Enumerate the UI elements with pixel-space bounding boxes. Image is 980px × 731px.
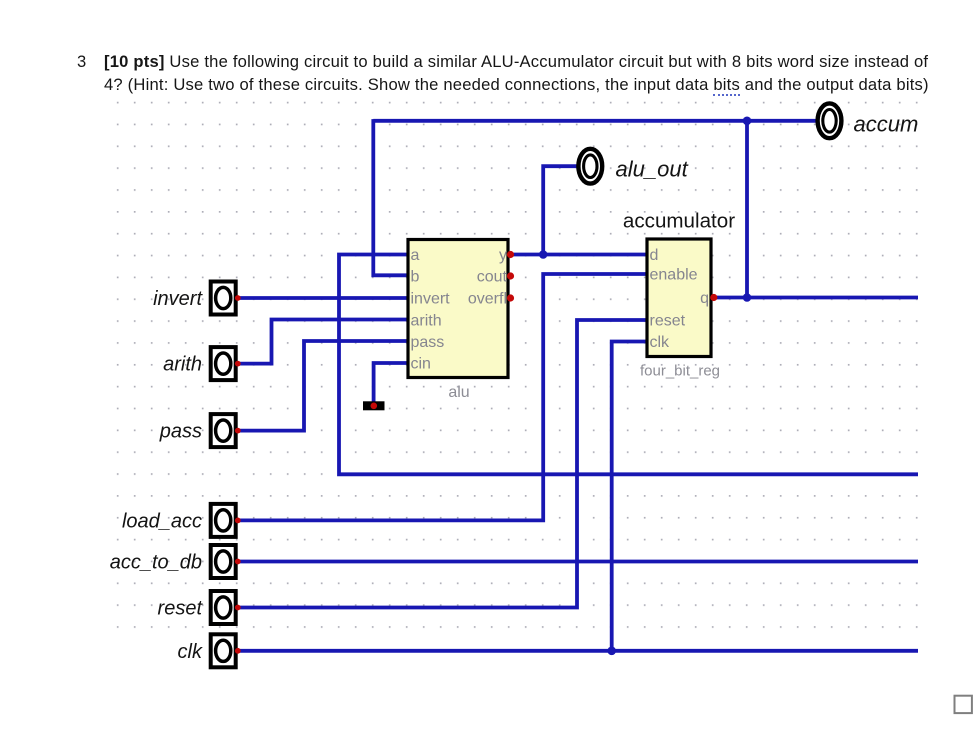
wire q output row to right edge — [712, 296, 918, 300]
red dot reset terminal — [235, 605, 241, 611]
red dot arith terminal — [235, 361, 241, 367]
wire arith net — [238, 320, 407, 364]
junction at clk branch — [607, 647, 616, 656]
svg-text:pass: pass — [159, 421, 202, 443]
red pin dot cout — [507, 272, 514, 279]
red dot invert terminal — [235, 295, 241, 301]
svg-text:clk: clk — [650, 334, 671, 351]
svg-text:alu_out: alu_out — [616, 157, 689, 182]
input terminal arith — [211, 347, 236, 380]
wire pass net — [238, 341, 407, 431]
block four_bit_reg — [647, 239, 711, 357]
red dot pass terminal — [235, 428, 241, 434]
svg-text:arith: arith — [163, 354, 202, 376]
svg-text:b: b — [411, 269, 420, 286]
svg-text:reset: reset — [158, 598, 204, 620]
svg-text:y: y — [499, 247, 507, 264]
red dot clk terminal — [235, 648, 241, 654]
page checkbox bottom right — [955, 696, 972, 713]
wire y to d row — [509, 253, 646, 257]
junction at q feedback — [743, 293, 752, 302]
red pin dot y — [507, 251, 514, 258]
wire vertical accum junction down to q row — [745, 121, 749, 298]
input terminal pass — [211, 414, 236, 447]
junction at alu_out branch — [539, 250, 548, 259]
input terminal acc_to_db — [211, 545, 236, 578]
red pin dot q — [710, 294, 717, 301]
wire a input from right edge data — [339, 255, 918, 475]
svg-text:cout: cout — [477, 269, 508, 286]
svg-text:invert: invert — [411, 291, 451, 308]
input terminal load_acc — [211, 504, 236, 537]
svg-text:invert: invert — [153, 288, 203, 310]
wire enable from load_acc — [238, 274, 646, 520]
ground symbol bar at cin — [363, 401, 385, 410]
svg-text:pass: pass — [411, 334, 445, 351]
wire invert row — [238, 296, 407, 300]
wire alu_out branch — [543, 166, 578, 254]
svg-text:d: d — [650, 247, 659, 264]
svg-text:a: a — [411, 247, 420, 264]
svg-text:cin: cin — [411, 356, 431, 373]
input terminal reset — [211, 591, 236, 624]
svg-text:acc_to_db: acc_to_db — [110, 552, 202, 574]
svg-text:alu: alu — [448, 384, 469, 401]
wire net accum top feedback horizontal — [373, 119, 817, 123]
svg-text:enable: enable — [650, 267, 698, 284]
svg-text:reset: reset — [650, 313, 686, 330]
svg-text:four_bit_reg: four_bit_reg — [640, 363, 720, 380]
red pin dot overfl — [507, 294, 514, 301]
output terminal accum — [818, 103, 842, 138]
question text line 2 — [104, 77, 929, 94]
input terminal invert — [211, 282, 236, 315]
red dot acc_to_db terminal — [235, 559, 241, 565]
question text line 1 — [104, 54, 928, 71]
svg-text:arith: arith — [411, 313, 442, 330]
question number 3 — [77, 54, 86, 71]
block alu — [408, 240, 508, 378]
wire reset net — [238, 320, 646, 608]
wire cin to gnd — [374, 363, 407, 402]
wire clk row to right edge — [238, 649, 918, 653]
svg-text:accum: accum — [854, 112, 919, 137]
svg-text:clk: clk — [178, 641, 203, 663]
red dot load_acc terminal — [235, 518, 241, 524]
svg-text:overfl: overfl — [468, 291, 507, 308]
input terminal clk — [211, 634, 236, 667]
wire acc_to_db row to right edge — [238, 560, 918, 564]
wire clk vertical to clk pin — [612, 342, 646, 651]
red dot gnd — [371, 403, 378, 410]
wire vertical from top feedback down to b input — [373, 119, 407, 275]
svg-text:q: q — [700, 290, 709, 307]
svg-text:load_acc: load_acc — [122, 510, 202, 532]
svg-text:accumulator: accumulator — [623, 210, 735, 233]
junction at accum branch — [743, 117, 752, 126]
output terminal alu_out — [578, 149, 602, 184]
